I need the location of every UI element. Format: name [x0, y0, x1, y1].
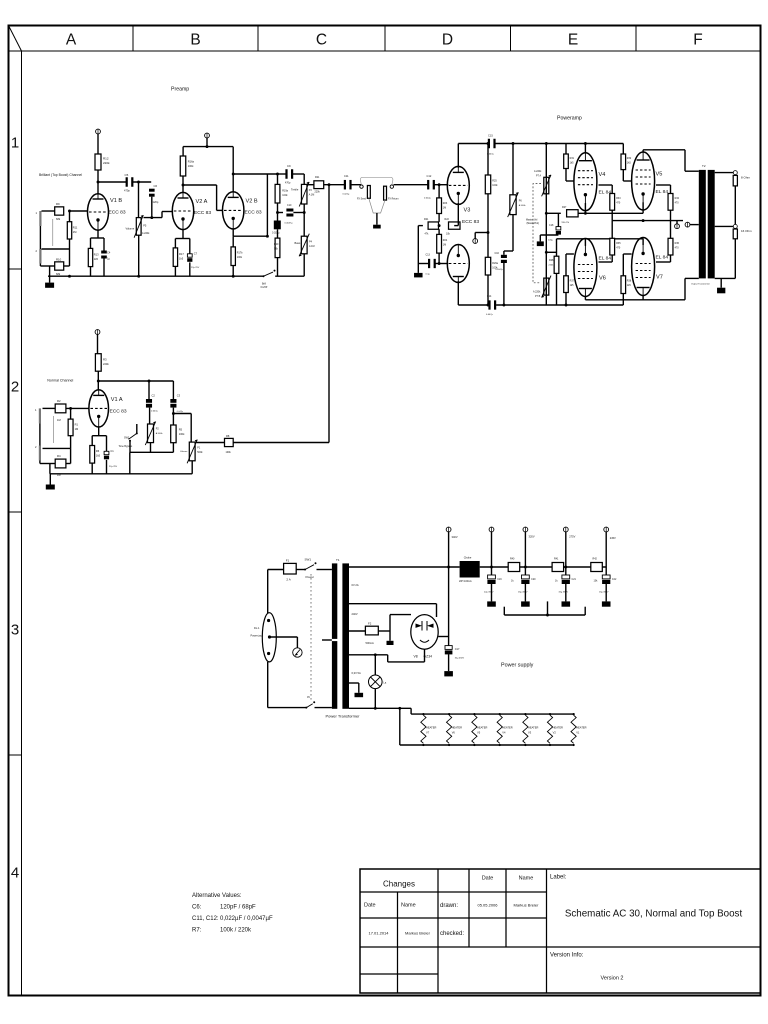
- junction supply branch: [487, 231, 490, 234]
- resistor R20: [274, 238, 280, 258]
- FX loop arch: [360, 177, 393, 185]
- svg-text:P7 B: P7 B: [535, 295, 541, 298]
- resistor R4: [55, 454, 66, 477]
- svg-text:470: 470: [616, 202, 621, 205]
- junction treble mid dot: [303, 211, 306, 214]
- capacitor C19psu: [484, 575, 502, 594]
- wire C3 node to R5: [172, 414, 174, 426]
- left inner border: [21, 51, 23, 996]
- svg-text:100k / 220k: 100k / 220k: [220, 928, 252, 934]
- svg-text:340V: 340V: [452, 535, 458, 539]
- svg-text:R28: R28: [549, 259, 554, 262]
- resistor R42: [591, 563, 603, 572]
- transformer T2 secondary bar: [708, 170, 715, 279]
- wire R18 to bus: [232, 266, 234, 277]
- terminal supply V3: [473, 239, 478, 244]
- svg-text:V8: V8: [414, 655, 418, 659]
- svg-text:C11: C11: [344, 174, 349, 178]
- svg-text:A 500k: A 500k: [519, 204, 527, 207]
- wire normal normalling: [53, 416, 55, 443]
- svg-text:EL 84: EL 84: [656, 255, 669, 261]
- capacitor C2: [146, 394, 159, 413]
- wire to C11: [324, 184, 345, 186]
- svg-text:68k: 68k: [56, 217, 61, 221]
- switch SW1b power: [305, 701, 315, 708]
- svg-text:T1: T1: [336, 558, 340, 562]
- capacitor C18: [548, 224, 561, 242]
- terminal screen terminal: [675, 224, 680, 229]
- svg-text:Volume: Volume: [126, 227, 135, 231]
- junction rail top dot: [545, 142, 548, 145]
- potentiometer P7A: [534, 170, 551, 196]
- resistor R33: [610, 194, 621, 211]
- svg-text:1k5: 1k5: [570, 284, 575, 287]
- svg-text:C18: C18: [549, 224, 554, 227]
- resistor R36: [668, 238, 680, 255]
- svg-text:V7: V7: [426, 731, 430, 735]
- title block line h974: [360, 973, 438, 975]
- wire t3 drop: [524, 532, 526, 575]
- junction grid node V3: [438, 183, 441, 186]
- wire tap F2: [349, 630, 365, 632]
- wire FX to C12: [394, 184, 429, 186]
- wire return U wire: [504, 601, 585, 615]
- svg-text:1M: 1M: [75, 427, 79, 431]
- junction C3 node: [172, 412, 175, 415]
- svg-text:2: 2: [11, 379, 19, 396]
- terminal OT center tap: [685, 222, 690, 227]
- capacitor C16: [495, 252, 507, 271]
- junction c16 rail dot: [502, 304, 505, 307]
- wire R36 top: [670, 221, 672, 239]
- wire normal jack sleeves: [40, 423, 55, 463]
- resistor R8: [225, 434, 234, 454]
- wire R8 to mix: [233, 442, 329, 444]
- wire R16 to plate: [182, 176, 184, 192]
- wire R26 bottom: [487, 275, 489, 305]
- svg-text:1k5: 1k5: [627, 162, 632, 165]
- svg-text:R21: R21: [424, 218, 429, 221]
- terminal supply V1A: [95, 330, 100, 335]
- svg-text:275V: 275V: [569, 535, 575, 539]
- svg-text:C21: C21: [572, 578, 577, 581]
- junction plate node V1A: [97, 380, 100, 383]
- wire square to R20: [277, 229, 279, 238]
- capacitor C10: [285, 204, 294, 225]
- jack input jack 1: [36, 211, 42, 226]
- junction lamp tap: [374, 653, 377, 656]
- junction C6 node: [137, 181, 140, 184]
- wire V1A cathode: [92, 427, 106, 451]
- svg-text:470p: 470p: [285, 182, 291, 185]
- svg-text:P5: P5: [143, 224, 147, 228]
- wire C5 to C6 node: [132, 181, 151, 183]
- wire P6 to C16 jog: [504, 215, 513, 255]
- resistor R21 series: [314, 176, 324, 193]
- svg-text:16µ 350V: 16µ 350V: [599, 592, 609, 594]
- junction b+ junction: [447, 566, 450, 569]
- svg-text:22µ 25V: 22µ 25V: [109, 466, 118, 468]
- wire R1 bottom row: [43, 436, 71, 449]
- header divider A-B: [132, 26, 134, 52]
- wire gnd stem V3: [417, 264, 419, 273]
- junction row node: [438, 224, 441, 227]
- svg-text:Preamp: Preamp: [171, 87, 189, 93]
- wire V1B grid wire: [70, 210, 88, 212]
- resistor R17: [173, 248, 184, 267]
- svg-text:R10: R10: [56, 257, 62, 261]
- wire C20 stem: [524, 583, 526, 601]
- header divider B-C: [257, 26, 259, 52]
- svg-text:0.0047µ: 0.0047µ: [285, 223, 294, 225]
- jack normal jack 2: [35, 445, 41, 461]
- ground OT ground: [717, 288, 725, 294]
- wire supply branch wire: [475, 233, 488, 239]
- FX return tip: [390, 185, 393, 188]
- junction v4 plate dot: [584, 142, 587, 145]
- svg-text:A 220k: A 220k: [534, 170, 542, 173]
- wire rail to R27: [546, 212, 561, 214]
- wire C12 to V3 grid: [434, 184, 448, 186]
- potentiometer P5 volume: [126, 215, 151, 238]
- svg-text:R31: R31: [570, 157, 575, 160]
- svg-text:V2: V2: [553, 731, 557, 735]
- wire input gnd drop: [49, 266, 51, 276]
- wire heater bottom bus: [400, 744, 573, 746]
- wire R19 to C10 node: [277, 203, 279, 221]
- svg-text:C17: C17: [455, 647, 460, 651]
- svg-text:T2: T2: [702, 164, 706, 168]
- heater resistor V5: [472, 713, 488, 746]
- capacitor C21psu: [559, 575, 577, 594]
- wire C2 to P2: [149, 408, 151, 424]
- terminal terminal 245V: [604, 527, 616, 540]
- wire T1 tap stub: [322, 639, 332, 641]
- svg-text:V5: V5: [656, 172, 663, 178]
- heater resistor V1: [571, 713, 587, 746]
- svg-text:C5: C5: [125, 173, 129, 177]
- wire center tap stub: [690, 224, 699, 226]
- wire R13 to bus: [90, 267, 92, 277]
- wire R23 to row: [438, 214, 440, 222]
- wire R11 to jack2 row: [42, 239, 70, 249]
- svg-text:100k: 100k: [237, 256, 243, 259]
- power jack pin bottom: [267, 652, 270, 655]
- junction C10 node dot: [276, 211, 279, 214]
- capacitor C13: [426, 254, 436, 276]
- speaker jack 8ohm circle: [733, 171, 737, 175]
- wire C4 to bus: [103, 259, 105, 277]
- wire treble bottom: [303, 204, 305, 236]
- svg-text:(MasterPot): (MasterPot): [527, 222, 540, 225]
- fuse F1: [284, 563, 297, 574]
- svg-text:Choke: Choke: [464, 556, 472, 560]
- svg-text:0V 2A: 0V 2A: [352, 583, 359, 587]
- wire OT sec vert: [734, 175, 736, 279]
- wire R38 bottom: [622, 294, 624, 306]
- svg-text:R42: R42: [593, 558, 598, 561]
- terminal terminal B3: [523, 527, 535, 538]
- transformer T2 primary bar: [699, 170, 706, 279]
- wire C13 left: [418, 263, 429, 265]
- junction bus dot a: [68, 275, 71, 278]
- svg-text:22µ 25V: 22µ 25V: [191, 267, 200, 269]
- wire C3 corner: [172, 381, 174, 399]
- wire SW1 to T1: [317, 569, 332, 571]
- svg-text:V4: V4: [599, 172, 606, 178]
- svg-text:500k: 500k: [197, 451, 203, 454]
- wire R20 to bus: [277, 258, 279, 277]
- svg-text:C6: C6: [154, 184, 158, 188]
- svg-text:3: 3: [11, 622, 19, 639]
- svg-text:R37: R37: [570, 280, 575, 283]
- svg-text:1k5: 1k5: [179, 257, 184, 261]
- wire bottom rail left: [458, 304, 488, 306]
- wire bass to bus: [303, 254, 305, 276]
- junction bus dot c: [232, 275, 235, 278]
- svg-text:R3: R3: [103, 358, 107, 362]
- svg-text:Name: Name: [401, 903, 416, 909]
- triode V1B: [88, 194, 126, 230]
- triode V2B: [223, 192, 262, 229]
- svg-text:220k: 220k: [103, 362, 109, 366]
- svg-text:Version Info:: Version Info:: [550, 953, 584, 959]
- svg-text:Power Transformer: Power Transformer: [326, 714, 361, 719]
- wire primary bottom: [268, 662, 307, 708]
- wire V2B cathode: [233, 229, 267, 236]
- wire jack to R2: [43, 407, 56, 409]
- capacitor C11: [343, 174, 352, 196]
- svg-text:V6: V6: [599, 276, 606, 282]
- svg-text:C9: C9: [287, 164, 291, 168]
- svg-text:R9: R9: [56, 202, 60, 206]
- wire V5 plate rail: [643, 150, 685, 152]
- svg-text:HEATER: HEATER: [426, 726, 436, 730]
- potentiometer P4 bass: [295, 234, 315, 257]
- wire grid to R1: [70, 408, 72, 419]
- heater resistor V7: [421, 713, 437, 746]
- capacitor C15: [487, 134, 496, 156]
- svg-text:220µ: 220µ: [548, 240, 554, 242]
- choke: [460, 561, 480, 578]
- wire V2A cathode: [175, 230, 189, 254]
- wire cathode rail bottom: [557, 239, 644, 246]
- wire R4 to node: [66, 448, 71, 463]
- wire R17 to bus: [174, 266, 176, 276]
- svg-text:0.047µ: 0.047µ: [151, 411, 158, 413]
- triode V2A: [172, 192, 211, 229]
- wire left return: [418, 226, 423, 264]
- svg-text:ECC 83: ECC 83: [110, 409, 127, 415]
- wire V1B cathode: [91, 230, 105, 250]
- wire heater drop left: [399, 708, 401, 745]
- junction P6 tap: [512, 142, 515, 145]
- wire C17 stem: [448, 654, 450, 671]
- ground normal ground: [46, 485, 55, 490]
- svg-text:ECC 83: ECC 83: [194, 210, 211, 216]
- wire R33 bottom: [611, 210, 613, 220]
- wire P6 drop: [512, 144, 514, 195]
- wire V1A supply: [97, 335, 99, 354]
- svg-text:R24: R24: [443, 239, 448, 242]
- wire V2A plate to V2B grid: [183, 185, 223, 210]
- junction grid node V1B: [68, 210, 71, 213]
- svg-text:1: 1: [11, 135, 19, 152]
- resistor R5: [171, 425, 185, 443]
- jack input jack 2: [36, 249, 42, 264]
- resistor R24: [437, 234, 448, 253]
- wire normal gnd stem: [49, 474, 51, 485]
- wire V2B feedback vert: [266, 174, 268, 236]
- svg-text:SW1: SW1: [305, 558, 312, 562]
- wire R31 to V4 grid: [566, 169, 574, 182]
- resistor R26a: [485, 257, 498, 275]
- wire R36 bottom: [656, 255, 671, 262]
- svg-text:1k5: 1k5: [96, 454, 101, 458]
- wire heater line: [349, 707, 411, 709]
- svg-text:V2 A: V2 A: [196, 199, 208, 205]
- wire rail to R28: [546, 239, 556, 256]
- title block line h947: [360, 946, 761, 948]
- resistor R2: [55, 399, 66, 422]
- pentode V7: [632, 238, 669, 296]
- svg-text:R23: R23: [443, 202, 448, 205]
- svg-text:220k: 220k: [315, 190, 321, 193]
- ground C22 ground: [602, 601, 611, 606]
- svg-text:C11, C12:: C11, C12:: [192, 916, 219, 922]
- svg-text:V1: V1: [576, 731, 580, 735]
- wire C22 stem: [605, 583, 607, 601]
- transformer T1 secondary bar: [342, 563, 349, 708]
- FX sleeve vee: [369, 198, 385, 213]
- title block line h892: [360, 891, 547, 893]
- resistor R27: [562, 206, 579, 224]
- corner diagonal: [9, 26, 22, 52]
- row tick 1-2: [9, 268, 22, 270]
- wire gnd stem preamp: [49, 276, 51, 282]
- wire FX gnd stem: [376, 213, 378, 225]
- capacitor C1: [104, 449, 118, 468]
- svg-text:6,3V 5A: 6,3V 5A: [352, 671, 361, 675]
- wire C10 left wire: [278, 212, 284, 214]
- speaker jack 8ohm body: [733, 175, 737, 186]
- speaker jack 16ohm circle: [733, 224, 737, 228]
- svg-text:Date: Date: [482, 876, 494, 882]
- wire row to cathode: [454, 203, 458, 226]
- capacitor C14: [486, 295, 496, 316]
- svg-text:C20: C20: [531, 578, 536, 581]
- triode V1A: [89, 390, 127, 427]
- svg-text:Changes: Changes: [383, 880, 415, 889]
- wire F2 gnd stem: [389, 631, 391, 641]
- svg-text:R27: R27: [562, 206, 567, 209]
- svg-text:R35: R35: [616, 242, 621, 245]
- wire OT gnd stem: [720, 278, 722, 287]
- wire C18 stub: [557, 213, 559, 226]
- ground C20 ground: [521, 601, 530, 606]
- potentiometer P1 volume: [180, 440, 203, 464]
- svg-text:Power: Power: [306, 575, 315, 579]
- wire tone top wire: [278, 173, 305, 175]
- wire OT sec top: [715, 172, 734, 174]
- svg-text:0,022µF / 0,0047µF: 0,022µF / 0,0047µF: [220, 916, 273, 922]
- svg-text:A 220k: A 220k: [142, 232, 150, 235]
- wire SW1b to T1: [315, 707, 332, 709]
- svg-text:R8: R8: [226, 434, 230, 438]
- title block line v397: [397, 892, 399, 993]
- junction rail r28 dot: [545, 251, 548, 254]
- svg-text:Bass: Bass: [295, 241, 301, 245]
- wire C16 to rail: [503, 263, 505, 305]
- wire winding gnd: [349, 683, 359, 693]
- svg-text:P7 A: P7 A: [536, 174, 541, 177]
- svg-text:R34: R34: [675, 197, 680, 200]
- wire C6 to wiper node: [151, 197, 153, 218]
- wire node to P1 top: [173, 414, 191, 443]
- junction R25 tap: [487, 142, 490, 145]
- pilot lamp: [369, 675, 383, 689]
- wire treble top stub: [303, 174, 305, 184]
- junction tone top dot: [276, 173, 279, 176]
- capacitor C12: [424, 174, 435, 200]
- pentode V5: [632, 152, 669, 210]
- resistor R9: [55, 202, 64, 221]
- svg-text:5W 47k: 5W 47k: [562, 222, 570, 224]
- heater resistor V6: [447, 713, 463, 746]
- svg-text:C3: C3: [177, 394, 181, 398]
- terminal terminal 340V: [446, 527, 458, 539]
- wire t2 drop: [491, 532, 493, 575]
- wire C18 to gnd: [540, 235, 558, 241]
- svg-text:R33: R33: [616, 197, 621, 200]
- svg-text:1M: 1M: [443, 207, 446, 210]
- wire R34 bottom: [670, 210, 672, 220]
- svg-text:0V: 0V: [307, 696, 310, 699]
- svg-text:17.01.2014: 17.01.2014: [368, 931, 389, 936]
- triode V3a: [447, 166, 479, 225]
- wire b+ chain: [480, 566, 607, 568]
- svg-text:R13: R13: [94, 253, 99, 257]
- svg-text:V4: V4: [502, 731, 506, 735]
- svg-text:470: 470: [675, 247, 680, 250]
- svg-text:Brill: Brill: [262, 283, 266, 286]
- svg-text:R17: R17: [179, 252, 184, 256]
- heater resistor V3: [523, 713, 539, 746]
- terminal supply V1B: [96, 129, 101, 134]
- svg-text:ECC 83: ECC 83: [462, 219, 479, 225]
- fuse F2: [365, 626, 378, 635]
- power jack pin top: [267, 619, 270, 622]
- capacitor C4: [101, 251, 111, 261]
- resistor R13: [88, 248, 99, 266]
- resistor R35: [610, 238, 621, 255]
- svg-text:A 1M: A 1M: [309, 245, 314, 248]
- wire cathode to R18: [232, 236, 234, 247]
- svg-text:0.022µ: 0.022µ: [424, 198, 431, 200]
- wire C3 to node: [172, 408, 174, 414]
- wire P1 bottom: [191, 461, 193, 474]
- resistor R41: [552, 563, 564, 572]
- svg-text:500mA: 500mA: [366, 641, 374, 645]
- svg-text:Power supply: Power supply: [501, 663, 534, 669]
- terminal supply V2A: [205, 133, 210, 138]
- svg-text:C: C: [316, 32, 327, 49]
- svg-text:120pF / 68pF: 120pF / 68pF: [220, 905, 256, 911]
- jack normal jack 1: [35, 408, 41, 423]
- svg-text:ECC 83: ECC 83: [245, 210, 262, 216]
- capacitor C17: [445, 646, 465, 660]
- wire V2A supply to R16: [183, 138, 233, 156]
